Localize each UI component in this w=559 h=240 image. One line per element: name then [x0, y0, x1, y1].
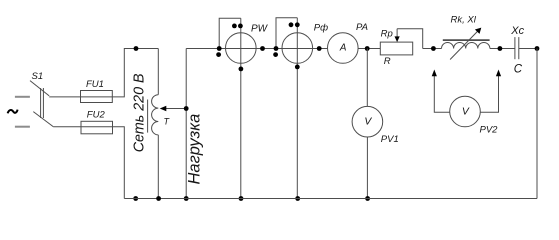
- wire: capacitor to right rail: [519, 48, 537, 50]
- fuse FU2: [81, 121, 113, 134]
- junction dot: mains top: [134, 46, 139, 51]
- junction dot: Pф voltage coil: [295, 22, 300, 27]
- voltmeter PV1: [352, 106, 383, 137]
- svg-text:FU1: FU1: [86, 79, 104, 90]
- transformer wiper arrow: [160, 106, 187, 111]
- junction dot: PW voltage coil: [238, 24, 243, 29]
- ammeter PA: [328, 33, 359, 64]
- capacitor Xc: [515, 37, 519, 59]
- wire: PV1 lower lead: [366, 137, 368, 199]
- svg-text:Rp: Rp: [381, 29, 393, 40]
- wire: S1 to FU1 to left riser: [49, 49, 158, 97]
- svg-text:T: T: [164, 117, 171, 127]
- polarity dot: PW below circle: [239, 67, 244, 72]
- voltmeter PV2: [450, 96, 481, 127]
- ac supply tilde symbol: [8, 110, 18, 114]
- rheostat Rp: [380, 29, 422, 55]
- wattmeter PW: [219, 18, 256, 198]
- svg-text:S1: S1: [32, 71, 44, 82]
- junction dot: mains bottom: [133, 196, 138, 201]
- junction dot: Pф loop left: [274, 46, 279, 51]
- svg-text:PV1: PV1: [381, 134, 399, 145]
- svg-text:Xc: Xc: [510, 25, 524, 37]
- svg-text:PV2: PV2: [480, 124, 499, 135]
- wire: right rail: [536, 49, 538, 199]
- dot: PW output: [260, 46, 265, 51]
- wire: PA to Rp: [358, 48, 380, 50]
- inductor Rk Xl: [442, 28, 490, 60]
- svg-text:R: R: [384, 56, 391, 67]
- transformer T core: [147, 100, 149, 133]
- phase meter Pф: [276, 18, 313, 199]
- junction dot: PV2 right tap: [498, 46, 503, 51]
- wire: S1 to FU2 to bottom rail: [53, 127, 124, 199]
- wire: Rp to inductor: [423, 48, 442, 50]
- svg-text:Rk, Xl: Rk, Xl: [451, 15, 477, 26]
- transformer T winding: [152, 49, 159, 199]
- wire: load tap line: [185, 49, 187, 199]
- svg-text:FU2: FU2: [87, 109, 106, 120]
- svg-text:Pф: Pф: [314, 22, 328, 33]
- junction dot: PV1 tap: [365, 46, 370, 51]
- polarity dot: Pф voltage coil left: [289, 22, 294, 27]
- junction dot: Pф bottom rail: [295, 196, 300, 201]
- junction dot: PW bottom rail: [239, 196, 244, 201]
- junction dot: transformer bottom: [156, 196, 161, 201]
- svg-text:PA: PA: [356, 22, 368, 33]
- polarity dot: Pф below circle: [295, 65, 300, 70]
- svg-text:C: C: [514, 63, 523, 75]
- wire: inductor to capacitor: [490, 48, 515, 50]
- wire: PV2 right probe: [480, 70, 501, 113]
- fuse FU1: [81, 91, 113, 103]
- junction dot: PV1 bottom rail: [365, 196, 370, 201]
- polarity dot: PW voltage coil left: [232, 24, 237, 29]
- svg-text:Сеть 220 В: Сеть 220 В: [131, 73, 147, 152]
- wire: PV2 left probe: [432, 70, 450, 113]
- switch S1: [30, 81, 53, 127]
- wire: bottom rail: [124, 198, 537, 200]
- polarity dot: Pф current coil: [273, 52, 278, 57]
- svg-text:Нагрузка: Нагрузка: [186, 114, 204, 185]
- svg-text:V: V: [462, 107, 470, 118]
- junction dot: load line bottom: [184, 196, 189, 201]
- polarity dot: PW current coil: [216, 52, 221, 57]
- wire: top main bus: [186, 48, 327, 50]
- junction dot: wiper tap: [184, 106, 189, 111]
- wire: input stub lower: [15, 126, 30, 128]
- svg-text:PW: PW: [251, 24, 269, 35]
- svg-text:V: V: [364, 117, 372, 128]
- dot: Pф output: [317, 46, 322, 51]
- junction dot: PW loop left: [217, 46, 222, 51]
- wire: input stub upper: [15, 96, 30, 98]
- wire: PV1 upper lead: [366, 49, 368, 107]
- junction dot: right rail top: [535, 46, 540, 51]
- svg-text:A: A: [339, 43, 347, 54]
- junction dot: PV2 left tap: [431, 46, 436, 51]
